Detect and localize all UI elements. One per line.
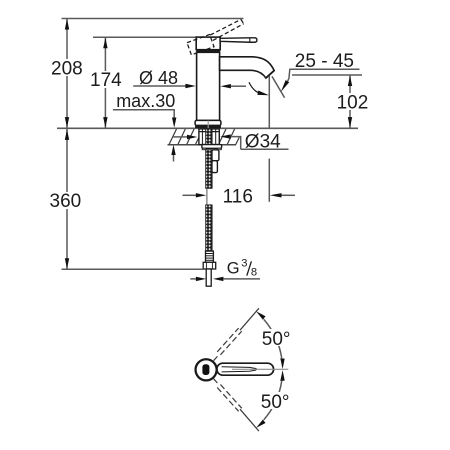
dimension line 174 xyxy=(104,37,106,128)
lever dashed (raised position) xyxy=(210,19,244,40)
deck hatching left xyxy=(169,129,199,145)
top-view axis centerline xyxy=(232,368,288,370)
svg-text:G: G xyxy=(227,259,240,277)
faucet body xyxy=(197,52,220,120)
svg-text:208: 208 xyxy=(51,58,83,79)
outlet extension line (vertical) xyxy=(268,76,270,128)
extension line bottom (360) xyxy=(62,268,204,270)
deck top line xyxy=(57,127,358,129)
deck bottom line xyxy=(168,144,237,146)
dia34 right arrow + leader xyxy=(220,134,231,138)
extension line top (208 to lever tip) xyxy=(62,18,244,20)
dimension line 208 xyxy=(66,19,68,129)
svg-text:Ø 48: Ø 48 xyxy=(139,68,178,88)
extension line 102 top xyxy=(292,74,362,76)
dia34 left arrow xyxy=(173,136,187,138)
label 50 lower xyxy=(260,392,291,409)
underline 25-45 xyxy=(289,68,359,70)
svg-text:max.30: max.30 xyxy=(116,91,175,111)
faucet base ring xyxy=(195,120,221,125)
faucet cap (cartridge housing) xyxy=(196,37,220,50)
hose braid upper segment xyxy=(206,150,212,189)
spout outlet face xyxy=(266,71,274,79)
threaded tube xyxy=(206,269,211,286)
svg-text:3: 3 xyxy=(241,258,247,270)
svg-text:8: 8 xyxy=(251,267,257,279)
base dark bar xyxy=(195,125,221,128)
svg-text:116: 116 xyxy=(223,187,253,208)
dimension line 102 xyxy=(349,75,351,128)
cap joint dark band xyxy=(196,50,220,53)
deck hatching right xyxy=(219,129,240,145)
hose nut G3/8 xyxy=(203,262,216,269)
lower arc xyxy=(264,381,282,420)
dimension line 360 xyxy=(66,129,68,269)
label 174 xyxy=(89,71,122,88)
leader 25-45 xyxy=(288,69,290,81)
label 208 xyxy=(50,59,83,76)
underline/leader Ø48 left arrow xyxy=(133,85,186,87)
Ø48 right arrow xyxy=(220,84,231,88)
underline max.30 xyxy=(113,110,174,119)
top-view lever xyxy=(217,363,274,375)
svg-text:102: 102 xyxy=(337,93,369,114)
spout xyxy=(220,57,275,78)
underline dia34 xyxy=(241,148,289,150)
shank through deck xyxy=(199,129,219,145)
hose break thin line xyxy=(206,188,208,205)
hose braid in shank xyxy=(206,129,212,145)
top-view lever inner contour xyxy=(222,367,257,372)
svg-text:Ø34: Ø34 xyxy=(245,132,281,153)
svg-text:50°: 50° xyxy=(262,329,291,350)
mounting stud xyxy=(212,150,219,161)
svg-text:174: 174 xyxy=(90,70,122,91)
underline G3/8 xyxy=(223,278,260,280)
label 102 xyxy=(336,93,368,110)
water stream line xyxy=(272,76,285,97)
max.30 up arrow below deck xyxy=(171,145,175,155)
svg-text:50°: 50° xyxy=(261,392,290,413)
G3/8 dimension arrows xyxy=(190,278,196,280)
hose braid lower segment xyxy=(206,205,212,251)
label 360 xyxy=(49,192,82,209)
label 50 upper xyxy=(261,329,292,346)
cap dashed (raised position) xyxy=(187,35,214,55)
lower 50deg leg xyxy=(240,409,259,431)
gray hose centerline in base xyxy=(207,121,209,129)
top-view pin xyxy=(202,364,209,375)
lever solid (handle) xyxy=(220,38,257,42)
upper 50deg leg xyxy=(240,308,259,330)
hose collar xyxy=(206,251,214,262)
upper arc xyxy=(264,319,282,358)
dimension 116 right xyxy=(270,193,282,197)
washer under deck xyxy=(202,145,222,149)
svg-text:360: 360 xyxy=(50,191,82,212)
extension line 174 (cap top) xyxy=(93,36,196,38)
dimension 116 left xyxy=(183,194,196,196)
curved flow arrow xyxy=(249,82,258,92)
top-view body circle xyxy=(196,359,217,380)
